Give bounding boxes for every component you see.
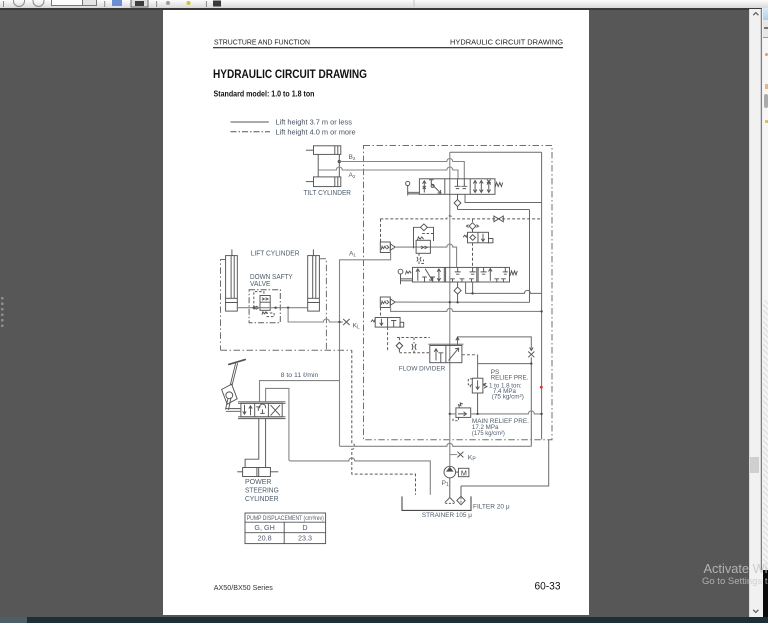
- svg-text:POWER: POWER: [245, 479, 272, 486]
- wire lift tank loop: [466, 282, 542, 293]
- svg-text:STRAINER 105 μ: STRAINER 105 μ: [422, 512, 472, 519]
- strainer: [445, 498, 455, 504]
- node KP plug: [450, 452, 464, 458]
- svg-text:Standard model: 1.0 to 1.8 ton: Standard model: 1.0 to 1.8 ton: [214, 90, 315, 99]
- pilot rail dashed: [380, 216, 541, 219]
- boundary dash-dot box of control valve assembly: [364, 146, 553, 440]
- wire right column V1: [529, 210, 531, 303]
- wire V1b plug column: [530, 357, 532, 446]
- pilot dash-dot bottom run: [221, 349, 352, 351]
- flow divider: [428, 344, 463, 363]
- svg-text:STEERING: STEERING: [245, 488, 279, 495]
- flow divider pilot network: [396, 338, 430, 353]
- op PS relief valve: [468, 378, 487, 414]
- svg-text:FLOW DIVIDER: FLOW DIVIDER: [399, 366, 446, 373]
- wire pump suction: [449, 478, 451, 498]
- wire steering cylinder left: [245, 419, 259, 468]
- svg-text:FILTER 20 μ: FILTER 20 μ: [473, 504, 510, 511]
- svg-text:A1: A1: [349, 251, 356, 258]
- shuttle valve lift pilot: [380, 242, 395, 253]
- wire pump pressure run: [340, 443, 532, 446]
- collapsed side panel handle dots: [1, 297, 4, 327]
- legend solid line: [231, 121, 269, 123]
- svg-text:CYLINDER: CYLINDER: [245, 496, 279, 503]
- solenoid valve attachment: [463, 232, 493, 243]
- filter: [457, 486, 465, 505]
- svg-text:8 to 11 ℓ/min: 8 to 11 ℓ/min: [281, 372, 319, 379]
- svg-text:HYDRAULIC CIRCUIT DRAWING: HYDRAULIC CIRCUIT DRAWING: [450, 38, 563, 47]
- op lift control valve: [398, 267, 517, 284]
- tilt cylinder: [306, 146, 341, 187]
- wire flow divider PS outlet to plug: [456, 337, 533, 351]
- wire steering T port to tank: [266, 388, 431, 494]
- svg-text:(75 kg/cm²): (75 kg/cm²): [492, 394, 524, 401]
- right edge panel sliver: [762, 8, 768, 20]
- wire lowering branch: [391, 308, 542, 312]
- svg-text:AX50/BX50 Series: AX50/BX50 Series: [214, 583, 273, 592]
- legend dash-dot line: [231, 131, 271, 133]
- svg-text:20.8: 20.8: [258, 534, 272, 543]
- svg-text:HYDRAULIC CIRCUIT DRAWING: HYDRAULIC CIRCUIT DRAWING: [213, 67, 367, 81]
- svg-text:RELIEF PRE.: RELIEF PRE.: [491, 374, 529, 381]
- lift cylinder left: [226, 249, 238, 311]
- wire KL branch: [288, 308, 343, 322]
- svg-text:TILT CYLINDER: TILT CYLINDER: [304, 190, 352, 197]
- svg-text:23.3: 23.3: [298, 534, 312, 543]
- windows activation watermark: [704, 561, 768, 576]
- svg-text:VALVE: VALVE: [250, 281, 271, 288]
- header rule: [213, 47, 563, 49]
- panel separator line: [760, 8, 762, 570]
- tank reservoir: [402, 496, 471, 510]
- op steering orbitrol valve: [238, 402, 286, 419]
- junction dot A1/KL: [338, 321, 340, 323]
- shuttle valve tank pilot: [380, 297, 395, 308]
- pump displacement table: [245, 513, 326, 544]
- svg-text:DOWN SAFTY: DOWN SAFTY: [250, 274, 293, 281]
- node KL plug: [343, 319, 349, 325]
- svg-text:D: D: [302, 523, 307, 532]
- shutoff valve on pilot rail: [494, 216, 503, 222]
- power steering cylinder: [237, 468, 278, 477]
- wire pump main vertical: [449, 152, 451, 466]
- svg-text:PUMP DISPLACEMENT (cm³/rev): PUMP DISPLACEMENT (cm³/rev): [247, 515, 324, 522]
- pilot drain from solenoid to lift valve: [472, 243, 474, 268]
- red annotation dot: [540, 386, 543, 389]
- wire lift cylinder feed: [237, 307, 307, 309]
- svg-text:M: M: [461, 468, 467, 477]
- svg-text:60-33: 60-33: [535, 580, 561, 592]
- node X plug PS port: [528, 352, 534, 358]
- check valve attachment line: [466, 219, 478, 232]
- wire shuttle to compensator and lift valve feed: [395, 244, 456, 267]
- wire tilt check to right column: [458, 209, 530, 211]
- down safety valve body: [254, 292, 274, 317]
- wire B2: [339, 159, 464, 179]
- check valve tilt outlet: [454, 194, 461, 209]
- steering wheel: [229, 360, 245, 386]
- down safety valve boundary: [249, 290, 280, 323]
- svg-text:P1: P1: [442, 480, 450, 488]
- svg-text:G, GH: G, GH: [254, 523, 274, 532]
- scrollbar: [749, 9, 763, 618]
- junction dots on cylinder feed: [253, 307, 290, 309]
- wire filter return: [461, 440, 549, 486]
- check valve lift outlet: [454, 282, 461, 302]
- steering gear box: [222, 384, 241, 411]
- toolbar strip (bottom edge of app toolbar): [0, 0, 768, 10]
- wire steering P port: [260, 381, 340, 402]
- label power steering cylinder: [245, 479, 279, 503]
- op main relief valve: [453, 403, 471, 421]
- svg-text:STRUCTURE AND FUNCTION: STRUCTURE AND FUNCTION: [214, 38, 310, 47]
- taskbar: [0, 617, 768, 623]
- svg-text:KL: KL: [353, 323, 361, 331]
- wire tank return right vertical: [541, 152, 543, 439]
- svg-text:Lift height 4.0 m or more: Lift height 4.0 m or more: [276, 127, 356, 136]
- pressure compensator assembly: [414, 224, 434, 264]
- svg-text:KP: KP: [468, 455, 477, 463]
- scrollbar up arrow: [753, 13, 758, 16]
- pump P1: [444, 466, 469, 478]
- toolbar icon fragments: [4, 0, 415, 7]
- wire tilt loop bottom: [465, 194, 542, 202]
- svg-text:Lift height 3.7 m or less: Lift height 3.7 m or less: [276, 118, 353, 127]
- op tilt control valve: [406, 179, 503, 196]
- document viewport background: [163, 9, 589, 615]
- pilot dash-dot right of lift cylinder: [319, 259, 326, 350]
- wire steering cylinder right: [265, 419, 267, 468]
- lift cylinder right: [308, 249, 320, 311]
- wire A1 lift feed: [340, 253, 391, 447]
- wire tilt feed loop top: [450, 151, 542, 153]
- svg-text:LIFT CYLINDER: LIFT CYLINDER: [251, 251, 300, 258]
- wire shuttle2 to V1: [395, 301, 529, 303]
- wire main relief line: [449, 411, 543, 415]
- drain dashed to tank: [352, 350, 416, 495]
- pilot line to shuttle box: [380, 219, 382, 242]
- scrollbar down arrow: [753, 610, 758, 613]
- svg-text:(175 kg/cm²): (175 kg/cm²): [472, 430, 505, 437]
- wire PS relief branch: [462, 355, 533, 378]
- label main relief: [472, 418, 529, 437]
- label PS relief: [489, 369, 529, 401]
- svg-text:A2: A2: [349, 172, 356, 179]
- wire lift spool drain: [472, 282, 474, 293]
- lowering solenoid valve: [371, 308, 404, 351]
- svg-text:B2: B2: [349, 154, 356, 161]
- pilot dash-dot left of lift cylinder: [221, 260, 226, 351]
- wire A2: [318, 167, 458, 179]
